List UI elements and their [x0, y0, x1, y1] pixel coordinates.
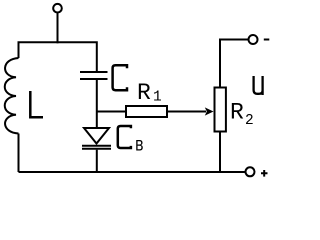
minus sign: [264, 39, 270, 41]
terminal plus: [246, 167, 255, 176]
wire from C bottom plate to varicap: [96, 80, 98, 128]
wire from R2 bottom to bottom rail: [219, 132, 221, 173]
terminal X1 (top input): [53, 4, 62, 13]
wire node to R1: [97, 111, 126, 113]
label Cв: [118, 126, 131, 148]
svg-text:в: в: [135, 135, 144, 157]
inductor L (4 loops): [5, 58, 19, 134]
varicap diode Cв capacitor bars: [82, 146, 111, 149]
svg-text:R: R: [137, 80, 151, 106]
wire from varicap to bottom rail: [96, 150, 98, 172]
wire from terminal X1 to top rail: [57, 13, 59, 44]
capacitor C plates: [80, 72, 108, 79]
wire bottom rail: [19, 171, 246, 173]
label L: [30, 91, 43, 117]
terminal minus: [249, 35, 258, 44]
wire top rail with corners down to L and C: [19, 42, 97, 71]
varicap diode Cв triangle: [84, 128, 109, 144]
svg-text:R: R: [230, 100, 244, 126]
wire from R1 to wiper arrow: [167, 111, 206, 113]
svg-text:2: 2: [245, 113, 254, 129]
resistor R1 body: [126, 106, 167, 117]
svg-text:1: 1: [153, 90, 162, 106]
wire from L bottom to bottom rail: [18, 134, 20, 173]
potentiometer R2 body: [215, 88, 226, 132]
label u (output voltage): [254, 76, 263, 95]
wire from R2 top to minus terminal: [220, 40, 248, 88]
wiper arrow into R2: [205, 107, 214, 115]
plus sign: [261, 170, 268, 177]
label C: [113, 65, 127, 90]
